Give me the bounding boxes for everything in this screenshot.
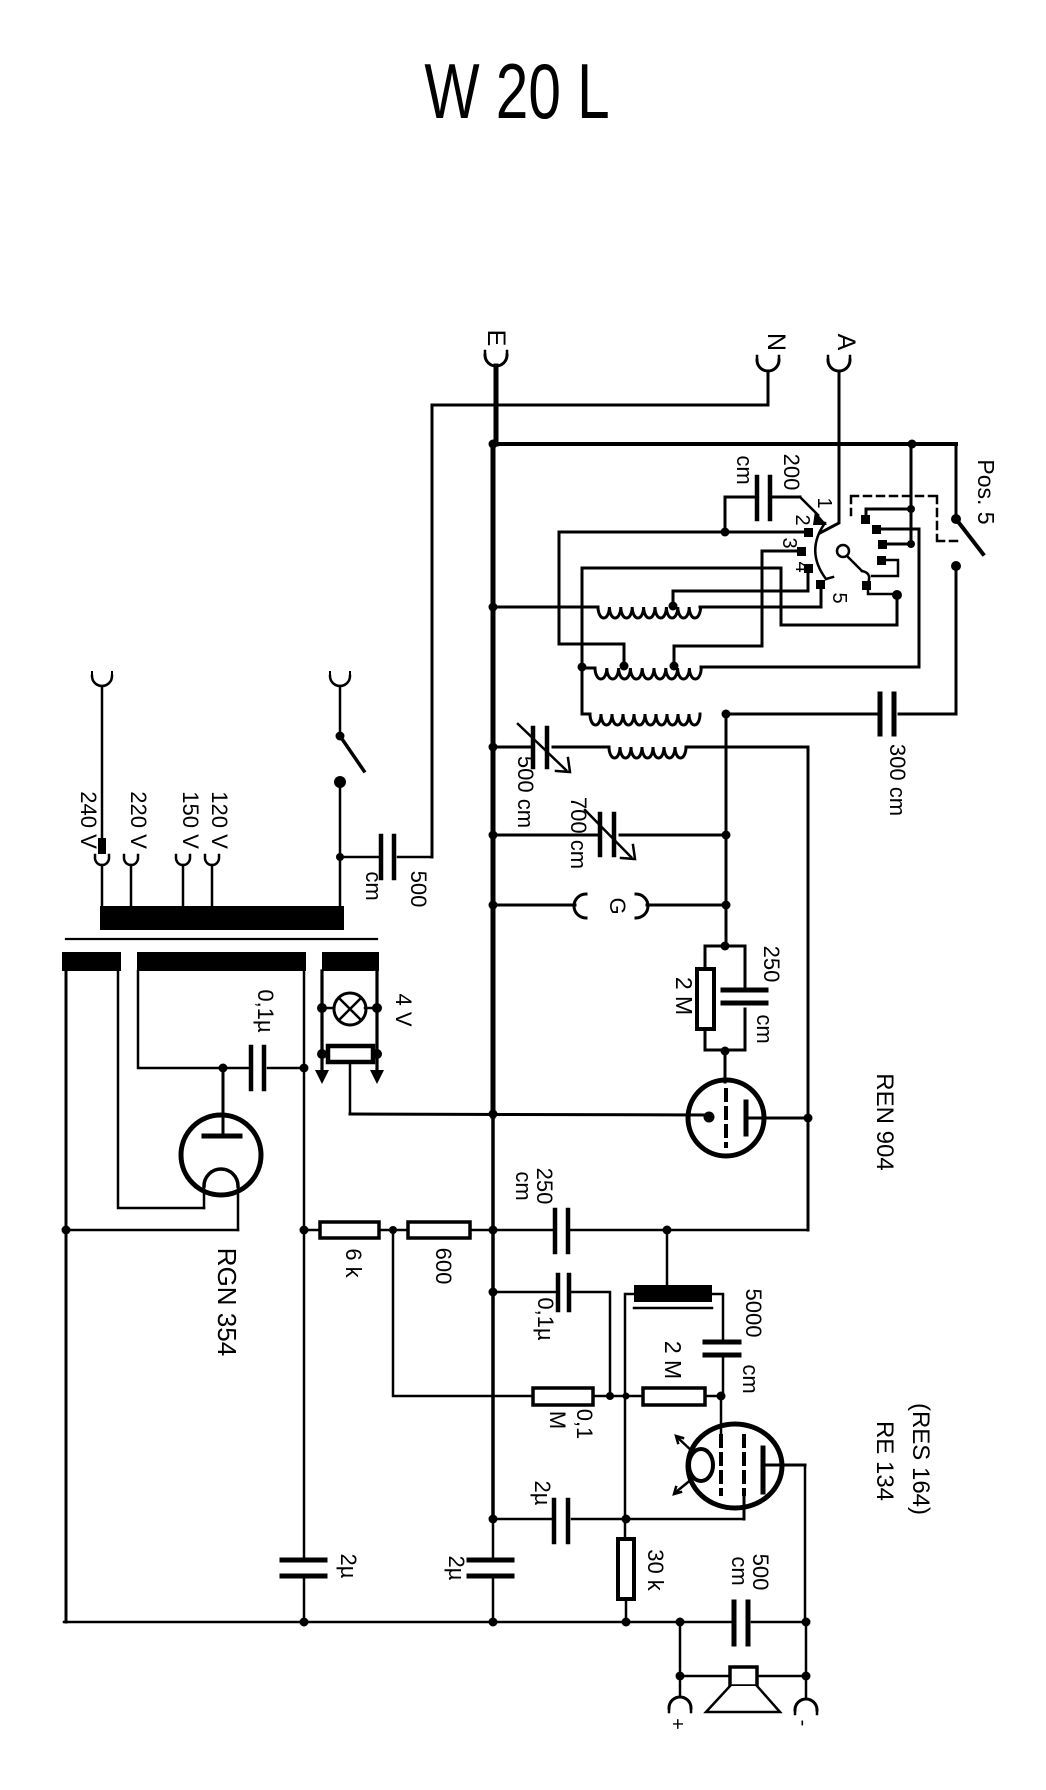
capacitor 5000 cm bbox=[705, 1289, 766, 1396]
svg-text:4 V: 4 V bbox=[391, 993, 416, 1026]
speaker bbox=[676, 1622, 811, 1712]
svg-text:220 V: 220 V bbox=[126, 791, 151, 849]
node coil1 tap bbox=[669, 602, 678, 611]
svg-text:2 M: 2 M bbox=[660, 1341, 686, 1379]
node E-top bbox=[489, 440, 498, 449]
tap stems bbox=[102, 865, 212, 907]
switch wiper arc (left bank) bbox=[815, 523, 826, 579]
switch Pos.5 blade bbox=[951, 514, 961, 524]
contact 2 bbox=[804, 528, 813, 537]
node bottom bus bbox=[489, 1618, 498, 1627]
capacitor 2µ bus electrolytic bbox=[444, 1519, 512, 1622]
tube RE 134 bbox=[674, 1396, 934, 1515]
rheostat filament bbox=[317, 1046, 382, 1114]
wire N to antenna line bbox=[432, 371, 768, 857]
resistor 30k bbox=[618, 1539, 668, 1622]
node 700cm on bus bbox=[489, 831, 498, 840]
capacitor 300 cm bbox=[726, 694, 910, 816]
node B+ 6k bbox=[300, 1226, 309, 1235]
wire r3 to bus bbox=[887, 543, 911, 546]
node heater tap on bus bbox=[489, 1110, 498, 1119]
node r1 bus bbox=[907, 505, 915, 513]
svg-text:2 M: 2 M bbox=[671, 977, 697, 1015]
node grid leak top bbox=[721, 942, 730, 951]
wire 200cm left plate down bbox=[724, 497, 727, 532]
svg-text:E: E bbox=[482, 330, 510, 347]
svg-text:cm: cm bbox=[727, 1556, 752, 1585]
svg-text:-: - bbox=[792, 1720, 814, 1727]
contact r3 bbox=[878, 540, 887, 549]
svg-text:2µ: 2µ bbox=[336, 1554, 361, 1579]
tube REN 904 bbox=[688, 1073, 898, 1170]
node top wire / r1 bus bbox=[908, 440, 917, 449]
transformer core bbox=[66, 938, 377, 940]
transformer AF core bbox=[634, 1307, 712, 1310]
wire coil1 right to contact5 bbox=[700, 606, 821, 609]
wire E stem bbox=[494, 366, 499, 444]
capacitor 700 cm variable bbox=[493, 797, 726, 869]
wire switch to transformer bbox=[339, 782, 342, 907]
node bottom anode bbox=[802, 1618, 811, 1627]
node G left on bus bbox=[489, 901, 498, 910]
capacitor 0,1µ AF bbox=[493, 1275, 610, 1396]
wire r1 to bus bbox=[866, 509, 911, 515]
contact 3 bbox=[797, 547, 806, 556]
contact r2 bbox=[872, 525, 881, 534]
svg-text:+: + bbox=[666, 1718, 688, 1730]
svg-text:1: 1 bbox=[813, 497, 835, 508]
terminal mains 240V bbox=[92, 672, 112, 854]
svg-text:2: 2 bbox=[791, 514, 813, 525]
node 700cm right bbox=[722, 831, 731, 840]
node below Pos.5 bbox=[951, 561, 961, 571]
node coil2 left bbox=[578, 663, 587, 672]
node bottom 30k bbox=[622, 1618, 631, 1627]
svg-text:300 cm: 300 cm bbox=[885, 744, 910, 816]
node 200cm / contact2 bbox=[721, 528, 730, 537]
contact 5 bbox=[816, 580, 825, 589]
capacitor 500 cm mains bbox=[340, 836, 432, 907]
svg-text:Pos. 5: Pos. 5 bbox=[973, 459, 999, 524]
node coil1 left on bus bbox=[489, 603, 498, 612]
wire contact2 to coil tap bbox=[559, 532, 804, 666]
rotor arm bbox=[847, 556, 862, 571]
node left bus filament bbox=[62, 1226, 71, 1235]
svg-text:240 V: 240 V bbox=[76, 791, 101, 849]
transformer AF secondary bbox=[625, 1294, 723, 1539]
svg-text:cm: cm bbox=[732, 455, 757, 484]
svg-text:30 k: 30 k bbox=[643, 1549, 668, 1592]
svg-text:W 20 L: W 20 L bbox=[424, 48, 609, 135]
dashed coupling of wave switch bbox=[851, 496, 960, 541]
transformer AF primary bbox=[666, 1230, 669, 1285]
tap cups bbox=[95, 855, 219, 865]
svg-text:0,1µ: 0,1µ bbox=[533, 1297, 558, 1341]
svg-text:cm: cm bbox=[738, 1364, 763, 1393]
wire E bus vertical bbox=[491, 444, 496, 1116]
capacitor 200 cm bbox=[725, 454, 804, 519]
wire coil2 left down to coil3 bbox=[582, 667, 590, 714]
svg-text:REN 904: REN 904 bbox=[871, 1073, 898, 1170]
wire r-bank bus bbox=[910, 444, 913, 545]
terminal A bbox=[828, 334, 860, 371]
node 600 on bus bbox=[489, 1226, 498, 1235]
wire tuned bus down bbox=[725, 714, 728, 946]
node coil3 right bbox=[722, 710, 731, 719]
node 0,1µ right bbox=[300, 1064, 309, 1073]
terminal N bbox=[757, 333, 790, 371]
svg-text:0,1: 0,1 bbox=[572, 1409, 597, 1440]
secondary winding bar LT bbox=[322, 952, 379, 971]
resistor 600 bbox=[408, 1222, 493, 1284]
wire to Pos.5 switch bbox=[955, 444, 958, 519]
wire A down to switch wiper bbox=[820, 371, 839, 533]
node bottom speaker left bbox=[676, 1618, 685, 1627]
coil L1 bbox=[493, 607, 701, 618]
resistor 6k bbox=[304, 1222, 408, 1279]
resistor 0,1 M bbox=[533, 1388, 643, 1439]
node 30k top bbox=[622, 1515, 631, 1524]
node 0,1µ AF on bus bbox=[489, 1288, 498, 1297]
wire top bus to Pos.5 bbox=[493, 442, 956, 446]
capacitor 500 cm variable bbox=[493, 724, 609, 828]
svg-text:600: 600 bbox=[431, 1248, 456, 1285]
node 6k/600 bbox=[389, 1226, 397, 1234]
svg-text:cm: cm bbox=[511, 1171, 536, 1200]
coil L2 bbox=[582, 668, 701, 679]
node 0,1µ to grid bbox=[606, 1392, 614, 1400]
secondary winding bar HT1 bbox=[62, 952, 121, 971]
transformer primary bar bbox=[100, 906, 344, 930]
wire HT1 right stem to filament bbox=[118, 971, 204, 1208]
svg-text:A: A bbox=[832, 334, 860, 351]
svg-text:6 k: 6 k bbox=[341, 1248, 366, 1278]
node G right bbox=[722, 901, 731, 910]
wire HT2 left stem bbox=[138, 971, 220, 1068]
wire contact5 stub bbox=[820, 589, 823, 607]
wire screen to cathode row bbox=[743, 1494, 746, 1519]
secondary winding bar HT2 bbox=[137, 952, 306, 971]
svg-text:120 V: 120 V bbox=[207, 791, 232, 849]
terminal mains switch bbox=[330, 672, 350, 733]
terminal speaker + bbox=[666, 1676, 691, 1730]
wire coil4 right to anode bus bbox=[686, 747, 808, 1230]
wire r4 hook bbox=[872, 560, 898, 576]
svg-text:G: G bbox=[605, 897, 630, 914]
grid leak loop wires bbox=[705, 946, 745, 1050]
node AF coupling bbox=[663, 1226, 672, 1235]
node 500cm mains tee bbox=[336, 853, 344, 861]
svg-text:RGN 354: RGN 354 bbox=[212, 1248, 242, 1356]
wire contact3 to coil2 tap bbox=[674, 551, 797, 666]
coil L4 bbox=[609, 747, 686, 758]
wire HT2 right stem / B+ line bbox=[303, 971, 306, 1622]
wire left bus bbox=[65, 971, 68, 1622]
heater plug arrows bbox=[315, 1070, 384, 1084]
capacitor 500 cm output bbox=[727, 1554, 773, 1644]
svg-text:500: 500 bbox=[406, 871, 431, 908]
node 500cm on bus bbox=[489, 743, 498, 752]
svg-text:3: 3 bbox=[778, 537, 800, 548]
wiper hook right bank bbox=[862, 571, 869, 583]
node anode REN904 bbox=[804, 1114, 813, 1123]
svg-text:N: N bbox=[762, 333, 790, 351]
node coil2 tap b bbox=[670, 662, 679, 671]
svg-text:500 cm: 500 cm bbox=[513, 756, 538, 828]
svg-text:5: 5 bbox=[828, 592, 850, 603]
svg-text:cm: cm bbox=[361, 871, 386, 900]
terminal speaker - bbox=[792, 1676, 817, 1726]
terminal E bbox=[482, 330, 510, 366]
wire 6k/600 tap to 0,1M bbox=[393, 1230, 533, 1396]
svg-text:2µ: 2µ bbox=[530, 1481, 555, 1506]
wire contact4 to coil1 tap bbox=[673, 573, 808, 606]
node bus bottom bbox=[489, 1515, 498, 1524]
svg-text:150 V: 150 V bbox=[178, 791, 203, 849]
svg-text:5000: 5000 bbox=[741, 1289, 766, 1338]
svg-text:RE 134: RE 134 bbox=[871, 1421, 898, 1501]
wire cathode-heater bbox=[350, 1114, 705, 1115]
svg-text:0,1µ: 0,1µ bbox=[253, 989, 278, 1033]
capacitor 0,1µ rectifier bbox=[226, 989, 304, 1089]
wire r2 to coil2 right bbox=[701, 529, 919, 667]
svg-text:cm: cm bbox=[752, 1014, 777, 1043]
wire RE134 anode down bbox=[804, 1465, 807, 1622]
svg-text:700 cm: 700 cm bbox=[566, 797, 591, 869]
lamp 4V pilot bbox=[317, 971, 416, 1072]
wire grid lead bbox=[724, 1051, 727, 1082]
wire rotor feed to coil2 left bbox=[582, 568, 897, 667]
rotor pivot o bbox=[837, 545, 849, 557]
coil L3 bbox=[590, 714, 700, 725]
wire r5 to rotor feed bbox=[868, 590, 897, 594]
contact 1 arrow bbox=[800, 497, 818, 515]
wire RGN filament to left bus bbox=[64, 1229, 238, 1232]
resistor 2M grid leak bbox=[697, 969, 714, 1029]
contact r1 bbox=[861, 515, 870, 524]
capacitor 2µ cathode bbox=[493, 1481, 744, 1542]
svg-text:2µ: 2µ bbox=[444, 1556, 469, 1581]
wire ground return bottom bbox=[64, 1621, 806, 1624]
svg-text:200: 200 bbox=[779, 454, 804, 491]
svg-text:4: 4 bbox=[791, 561, 813, 572]
terminal G pickup bbox=[493, 894, 726, 918]
node secondary to 2M bbox=[623, 1393, 630, 1400]
capacitor 250 cm coupling bbox=[493, 1168, 808, 1252]
node anode RGN bbox=[219, 1064, 228, 1073]
svg-text:250: 250 bbox=[759, 946, 784, 983]
tube RGN 354 bbox=[181, 1068, 261, 1356]
capacitor 2µ left electrolytic bbox=[282, 1554, 361, 1579]
switch mains bbox=[336, 732, 345, 741]
node RE134 grid bbox=[717, 1392, 726, 1401]
node coil2 tap a bbox=[620, 662, 629, 671]
node rotor feed bbox=[892, 590, 902, 600]
contact r5 bbox=[862, 581, 871, 590]
capacitor 250 cm grid bbox=[723, 990, 766, 1003]
contact 4 bbox=[804, 564, 813, 573]
contact r4 bbox=[877, 556, 886, 565]
node grid leak bottom bbox=[721, 1047, 730, 1056]
node bottom B+ bbox=[300, 1618, 309, 1627]
svg-text:M: M bbox=[545, 1411, 570, 1429]
wire Pos.5 to 300cm bbox=[899, 566, 956, 714]
resistor 2M AF bbox=[643, 1341, 721, 1405]
svg-text:(RES 164): (RES 164) bbox=[907, 1403, 934, 1515]
